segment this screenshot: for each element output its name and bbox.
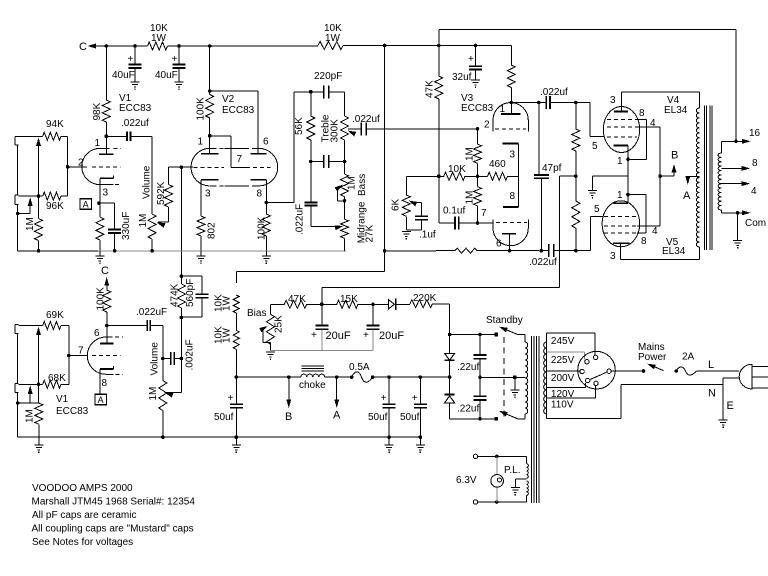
svg-text:8: 8 [510, 191, 516, 202]
svg-text:40uF: 40uF [112, 70, 135, 81]
svg-text:1M: 1M [25, 409, 36, 423]
svg-text:Power: Power [638, 352, 667, 363]
svg-text:V2: V2 [222, 94, 235, 105]
svg-text:+: + [311, 330, 317, 341]
svg-text:N: N [708, 388, 716, 400]
svg-text:474K: 474K [170, 283, 181, 307]
svg-text:+: + [228, 393, 234, 404]
svg-text:.22uf: .22uf [457, 362, 479, 373]
svg-text:20uF: 20uF [379, 330, 404, 342]
svg-text:V1: V1 [56, 394, 69, 405]
svg-text:Volume: Volume [150, 342, 161, 376]
svg-text:.022uf: .022uf [352, 114, 380, 125]
svg-text:225V: 225V [551, 355, 575, 366]
svg-text:94K: 94K [46, 119, 64, 130]
svg-text:1M: 1M [25, 217, 36, 231]
svg-text:.022uf: .022uf [121, 118, 149, 129]
svg-text:300K: 300K [330, 119, 341, 143]
svg-text:40uF: 40uF [155, 70, 178, 81]
svg-text:choke: choke [299, 380, 326, 391]
svg-text:1W: 1W [222, 295, 233, 311]
svg-text:EL34: EL34 [662, 246, 686, 257]
svg-text:560pF: 560pF [185, 279, 196, 307]
svg-text:Marshall JTM45 1968 Serial#: 1: Marshall JTM45 1968 Serial#: 12354 [32, 497, 196, 508]
svg-text:1M: 1M [148, 387, 159, 401]
svg-text:+: + [468, 54, 474, 65]
svg-text:P.L.: P.L. [504, 465, 521, 476]
svg-text:1W: 1W [151, 33, 167, 44]
svg-text:A: A [683, 190, 691, 202]
svg-text:.1uf: .1uf [419, 230, 436, 241]
svg-text:1M: 1M [138, 214, 149, 228]
svg-text:Volume: Volume [142, 165, 153, 199]
svg-text:ECC83: ECC83 [56, 406, 89, 417]
svg-text:Bias: Bias [247, 308, 266, 319]
svg-text:+: + [128, 54, 134, 65]
svg-text:1W: 1W [325, 33, 341, 44]
svg-text:802: 802 [207, 222, 218, 239]
svg-text:+: + [381, 393, 387, 404]
svg-text:.022uf: .022uf [529, 257, 557, 268]
svg-text:96K: 96K [46, 201, 64, 212]
svg-text:3: 3 [510, 150, 516, 161]
svg-text:EL34: EL34 [664, 105, 688, 116]
svg-text:7: 7 [237, 154, 243, 165]
svg-text:25K: 25K [274, 315, 285, 333]
svg-text:Bass: Bass [357, 174, 368, 196]
svg-text:Standby: Standby [486, 315, 523, 326]
svg-text:B: B [285, 411, 292, 423]
svg-text:6: 6 [496, 239, 502, 250]
svg-text:5: 5 [594, 204, 600, 215]
svg-text:3: 3 [103, 188, 109, 199]
svg-text:592K: 592K [156, 181, 167, 205]
svg-text:6.3V: 6.3V [456, 475, 477, 486]
svg-text:ECC83: ECC83 [222, 105, 255, 116]
svg-text:1M: 1M [465, 147, 476, 161]
svg-text:VOODOO AMPS 2000: VOODOO AMPS 2000 [32, 483, 133, 494]
svg-text:100K: 100K [196, 97, 207, 121]
svg-text:8: 8 [641, 236, 647, 247]
svg-text:ECC83: ECC83 [461, 103, 494, 114]
svg-text:460: 460 [489, 159, 506, 170]
svg-text:1M: 1M [347, 176, 358, 190]
svg-text:330uF: 330uF [121, 212, 132, 240]
svg-text:4: 4 [652, 226, 658, 237]
svg-text:32uf: 32uf [452, 72, 472, 83]
svg-text:47K: 47K [425, 80, 436, 98]
svg-text:4: 4 [751, 186, 757, 197]
svg-text:Com: Com [745, 218, 766, 229]
svg-text:.22uf: .22uf [457, 404, 479, 415]
svg-text:All pF caps are ceramic: All pF caps are ceramic [32, 510, 136, 521]
svg-text:220pF: 220pF [314, 71, 342, 82]
svg-text:220K: 220K [413, 293, 437, 304]
svg-text:0.5A: 0.5A [349, 362, 370, 373]
svg-text:56K: 56K [294, 117, 305, 135]
svg-text:16: 16 [749, 128, 761, 139]
svg-text:.022uF: .022uF [136, 307, 167, 318]
svg-text:C: C [79, 41, 87, 53]
svg-text:7: 7 [78, 346, 84, 357]
svg-text:+: + [172, 54, 178, 65]
svg-text:245V: 245V [551, 336, 575, 347]
svg-text:3: 3 [610, 95, 616, 106]
svg-text:110V: 110V [551, 399, 574, 410]
svg-text:3: 3 [205, 189, 211, 200]
svg-text:1W: 1W [222, 327, 233, 343]
svg-text:200V: 200V [551, 373, 575, 384]
svg-text:.022uF: .022uF [295, 204, 306, 235]
svg-text:10K: 10K [448, 164, 466, 175]
svg-text:E: E [727, 400, 734, 412]
svg-text:98K: 98K [92, 102, 103, 120]
svg-text:1: 1 [500, 104, 506, 115]
svg-text:69K: 69K [46, 310, 64, 321]
svg-text:6: 6 [94, 328, 100, 339]
svg-text:68K: 68K [48, 373, 66, 384]
svg-text:6K: 6K [391, 198, 402, 211]
svg-text:B: B [671, 150, 678, 162]
svg-text:47K: 47K [288, 294, 306, 305]
svg-text:1: 1 [198, 137, 204, 148]
svg-text:See Notes for voltages: See Notes for voltages [32, 537, 133, 548]
svg-text:1: 1 [95, 138, 101, 149]
svg-text:1: 1 [617, 190, 623, 201]
svg-text:3: 3 [610, 251, 616, 262]
svg-text:.002uF: .002uF [185, 339, 196, 370]
svg-text:All coupling caps are "Mustard: All coupling caps are "Mustard" caps [32, 524, 194, 535]
svg-text:A: A [333, 410, 341, 422]
svg-text:8: 8 [639, 108, 645, 119]
svg-text:5: 5 [592, 141, 598, 152]
svg-text:2A: 2A [682, 352, 695, 363]
svg-text:100K: 100K [96, 287, 107, 311]
svg-text:20uF: 20uF [326, 330, 351, 342]
svg-text:47pf: 47pf [542, 163, 562, 174]
svg-text:8: 8 [752, 158, 758, 169]
svg-text:C: C [101, 265, 109, 277]
svg-text:A: A [98, 395, 104, 405]
svg-text:A: A [83, 200, 89, 210]
svg-text:.022uf: .022uf [540, 87, 568, 98]
svg-text:27K: 27K [365, 224, 376, 242]
svg-text:100K: 100K [257, 216, 268, 240]
svg-text:1M: 1M [465, 191, 476, 205]
svg-text:8: 8 [257, 189, 263, 200]
svg-text:8: 8 [102, 378, 108, 389]
svg-text:6: 6 [263, 137, 269, 148]
svg-text:ECC83: ECC83 [119, 103, 152, 114]
svg-text:1: 1 [617, 156, 623, 167]
svg-text:+: + [363, 330, 369, 341]
svg-text:50uf: 50uf [214, 412, 234, 423]
svg-text:+: + [412, 393, 418, 404]
svg-text:15K: 15K [340, 294, 358, 305]
svg-text:0.1uf: 0.1uf [443, 206, 465, 217]
svg-text:L: L [708, 359, 714, 371]
svg-text:2: 2 [484, 120, 490, 131]
svg-text:7: 7 [481, 208, 487, 219]
svg-text:50uf: 50uf [368, 412, 388, 423]
svg-text:50uf: 50uf [400, 412, 420, 423]
